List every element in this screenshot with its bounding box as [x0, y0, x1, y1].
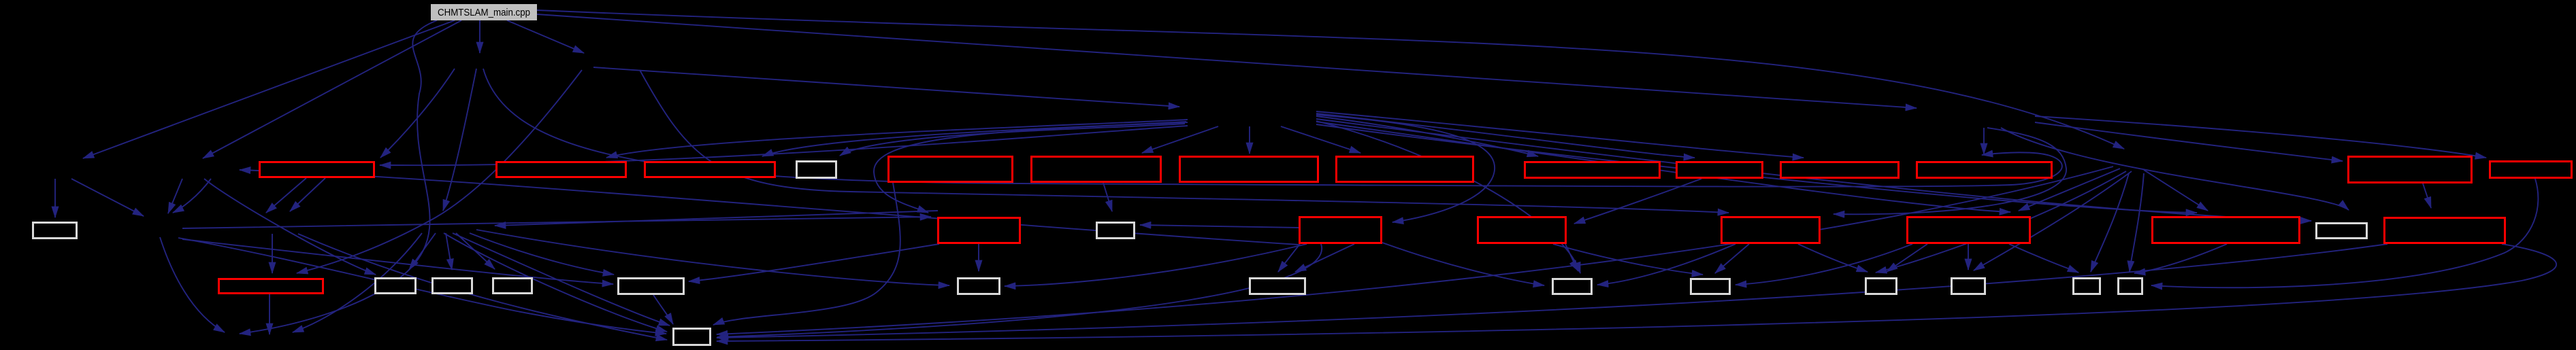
edge R2e to W3i — [1553, 244, 1703, 275]
edge R2g to W3j b — [1887, 244, 1927, 272]
edge title to hub H3 — [537, 10, 2124, 149]
box Wb — [674, 329, 711, 345]
edge hub H2 to R2f gap arc — [1833, 128, 2066, 214]
edge node Lb to W3b — [204, 179, 376, 275]
edge hub H2 to R2j left — [2001, 128, 2349, 210]
edge R2b to W3e right edge — [689, 244, 939, 281]
box W3m — [2119, 279, 2142, 294]
edge R2f to W3j — [1798, 244, 1868, 272]
edge R1f to W2c — [1103, 183, 1112, 211]
box R1j — [1677, 162, 1763, 178]
edge R2b to W3f — [978, 244, 979, 271]
box W2i — [2317, 224, 2367, 239]
edge R2f to W3h right — [1597, 244, 1735, 285]
edge title to node Lb — [203, 20, 461, 158]
edge hub H2 to R1l — [1983, 128, 1985, 154]
edge R2b to hub H6 right edge — [495, 211, 938, 226]
edge node H4 to W3m — [2130, 173, 2144, 272]
edge node H4 to R2g — [2019, 169, 2120, 211]
box R1f — [1032, 157, 1161, 182]
edge corridor hook around R1l into its top — [483, 69, 2062, 187]
box R2d — [1300, 217, 1382, 243]
edge R2g to W3l — [2009, 244, 2078, 273]
box R2e — [1478, 217, 1566, 243]
edge R2f to W3i — [1715, 244, 1749, 273]
edge hub H6 to bottom node b — [444, 233, 667, 332]
box W3l — [2074, 279, 2100, 294]
box R1l — [1917, 162, 2052, 178]
box R1b — [497, 162, 626, 177]
edge hub H6 to bottom node a — [453, 233, 670, 326]
box R2g — [1908, 217, 2030, 243]
edge hub H2 to R1m left — [2035, 122, 2343, 161]
edge node Lb to hub H5 a — [168, 179, 182, 213]
edge R1n arc to W3m right — [2151, 179, 2538, 287]
edge R2e to W3h — [1565, 244, 1578, 271]
edge R2g to W3k — [1968, 244, 1969, 270]
box R2f — [1722, 217, 1820, 243]
box R1c — [645, 162, 775, 177]
edge node C2 to R2f corridor — [640, 70, 1729, 213]
box W3h — [1553, 279, 1592, 294]
edge R2j to bottom node — [717, 244, 2387, 338]
edge node under R1a to bottom node — [298, 234, 667, 340]
edge hub H1 to R1g — [1249, 126, 1250, 154]
edge R2j loop arc to bottom node — [717, 244, 2556, 341]
box W2a — [33, 223, 77, 239]
edge node to R3a — [272, 234, 273, 273]
box R1m — [2349, 157, 2472, 183]
box R1h — [1337, 157, 1473, 182]
edge hub H1 to R1a right — [380, 126, 1188, 165]
box R1k — [1781, 162, 1899, 178]
edge hub H1 to W2i — [1316, 119, 2311, 221]
box R1e — [889, 157, 1013, 182]
box R2h — [2153, 217, 2300, 243]
edge W3e to bottom node — [653, 295, 673, 324]
edge hub H1 to R1i — [1316, 116, 1538, 156]
edge R2d to W3f right — [1005, 244, 1307, 286]
box W3c — [433, 279, 472, 294]
edge hub H6 to W3c — [446, 233, 452, 270]
edge hub H1 to R2b arc — [874, 122, 1188, 213]
edge hub H5 to W3e left — [182, 239, 613, 284]
edge R1m to R2j — [2423, 183, 2431, 208]
box W2c — [1097, 223, 1135, 239]
box R2b — [939, 218, 1020, 243]
edge node C2 to hub H1 — [593, 67, 1179, 107]
edge hub H1 to R1f — [1142, 126, 1218, 153]
box W1d — [797, 162, 836, 178]
edge hub H5 to bottom left node — [160, 237, 225, 332]
edge hub H5 to bottom node — [178, 238, 666, 334]
edge R2d to W3g — [1278, 244, 1300, 272]
edge hub H5 to R2b flat — [182, 217, 931, 228]
box R1i — [1525, 162, 1660, 178]
edge title to hub H2 — [537, 14, 1917, 108]
edge hub H6 to W3d — [456, 233, 495, 269]
edge hub H6 to W3f left — [476, 230, 949, 285]
edge R2d to W2c right — [1140, 225, 1299, 228]
edge hub H1 to R1b — [606, 120, 1188, 158]
edge title to node C1 — [479, 20, 480, 53]
edge R3a to bottom left node — [269, 294, 270, 334]
edge node H4 to W3l — [2091, 173, 2129, 272]
box W3i — [1691, 279, 1730, 294]
edge node La to hub H5 — [71, 179, 144, 216]
box W3f — [958, 279, 1000, 294]
edge node H4 to W3j — [1876, 171, 2126, 273]
edge node H4 to W3k — [1974, 171, 2132, 270]
box R1g — [1180, 157, 1318, 182]
edge R2h to W3m — [2134, 244, 2227, 273]
edge hub H1 to R1k — [1316, 111, 1804, 158]
edge R1a to node a — [266, 178, 306, 213]
edge R2d to W3h left — [1382, 243, 1544, 285]
box W3b — [376, 279, 416, 294]
edge R1e curve to bottom node — [713, 183, 900, 325]
edge node H4 to bottom node — [717, 167, 2113, 334]
edge node C2 to R3a — [297, 70, 582, 273]
edge R2g to W3i right — [1735, 244, 1912, 285]
box R2j — [2385, 218, 2505, 243]
edge node H4 to R2h — [2144, 170, 2208, 211]
edge hub H1 to R2h — [1316, 124, 2197, 213]
edge title to node C2 — [507, 20, 584, 53]
edge node C1 to R1a — [380, 69, 455, 158]
edge hub H6 to bottom left node — [293, 233, 422, 332]
edge node C1 to hub H5 — [443, 69, 476, 211]
title node CHMTSLAM_main.cpp — [431, 4, 537, 20]
edge title to node La — [83, 20, 455, 158]
edge hub H1 to R2d arc — [1316, 115, 1495, 222]
edge R2d to node Lb — [240, 170, 1299, 245]
edge hub H1 to R2g — [1316, 122, 2010, 212]
box R1n — [2490, 162, 2572, 178]
edge hub H1 to W1d — [840, 124, 1185, 156]
edge hub H1 to W3h steep — [1316, 121, 1580, 273]
edge hub H1 to R1j — [1316, 113, 1695, 158]
edge hub H1 to R1c — [762, 122, 1186, 156]
box W3j — [1866, 279, 1897, 294]
box R1a — [260, 162, 374, 177]
box W3k — [1952, 279, 1985, 294]
box W3e — [619, 279, 684, 294]
edge node La to W2a — [54, 179, 56, 217]
edge R2d to W3g b — [1295, 244, 1354, 272]
box R3a — [219, 279, 323, 294]
edge hub H1 to R1h — [1281, 126, 1360, 153]
edge R1j to R2e — [1574, 179, 1701, 224]
edge hub H6 to W3b — [409, 233, 436, 270]
edge R2d to bottom node — [717, 244, 1322, 337]
box W3d — [493, 279, 532, 294]
edge title S-curve to bottom left node — [240, 20, 437, 334]
edge node Lb to hub H5 b — [173, 179, 211, 213]
svg-text:CHMTSLAM_main.cpp: CHMTSLAM_main.cpp — [438, 7, 530, 18]
edge R1a to node b — [290, 178, 325, 211]
edge hub H6 to W3e — [470, 233, 614, 275]
box W3g — [1250, 279, 1305, 294]
edge hub H2 to R1n — [2035, 116, 2486, 158]
